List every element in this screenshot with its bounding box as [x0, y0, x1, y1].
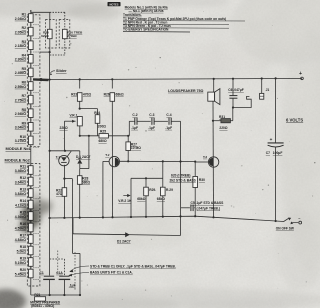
wire C6 to jack contact: [233, 96, 251, 107]
R30 dashed enclosure: [46, 20, 57, 49]
resistor R13 3.84kΩ (divider module 2): [30, 186, 32, 200]
junction rail-R26: [111, 78, 113, 80]
svg-text:MODULE No1: MODULE No1: [6, 146, 32, 151]
svg-text:TO ENERGY SPECIFICATION: TO ENERGY SPECIFICATION: [123, 28, 169, 32]
resistor R30 TREB ONLY 270k: [64, 12, 66, 29]
resistor R17 4.84kΩ (divider module 2): [30, 232, 32, 246]
svg-text:C5 .1μF STD & BASS: C5 .1μF STD & BASS: [191, 201, 225, 205]
wire R23 bottom to node: [79, 101, 81, 108]
svg-text:STD & TREB C1 ONLY. .1μF S: STD & TREB C1 ONLY. .1μF STD & BASL .047…: [90, 265, 176, 269]
wire lower loop: [73, 234, 181, 236]
resistor R16 4.59kΩ (divider module 2): [30, 221, 32, 235]
svg-text:2.18kΩ: 2.18kΩ: [15, 44, 26, 48]
svg-text:62kΩ: 62kΩ: [41, 34, 49, 38]
svg-text:V.R.1: V.R.1: [70, 114, 78, 118]
svg-text:3.84kΩ: 3.84kΩ: [15, 192, 26, 196]
svg-text:5.0kΩ: 5.0kΩ: [17, 249, 27, 253]
junction rail-R23: [79, 78, 81, 80]
svg-text:2k2 STD & BASS: 2k2 STD & BASS: [170, 178, 197, 182]
svg-text:10 MΩ: 10 MΩ: [131, 146, 141, 150]
svg-text:R29.: R29.: [149, 188, 156, 192]
wire R24 bottom: [97, 123, 99, 136]
wire emitter jog: [64, 178, 72, 180]
resistor R29a 68k: [145, 178, 147, 187]
wire chain bottom drop: [30, 281, 32, 296]
potentiometer VR2 1k (volume): [130, 178, 132, 217]
svg-text:22kΩ: 22kΩ: [60, 126, 69, 130]
svg-text:3.64kΩ: 3.64kΩ: [15, 180, 26, 184]
capacitor C7 100uF electrolytic: [275, 78, 277, 142]
svg-text:.1μF: .1μF: [69, 283, 76, 287]
svg-text:3.04kΩ: 3.04kΩ: [15, 126, 26, 130]
loudspeaker symbol: [213, 79, 215, 92]
svg-text:3.46kΩ: 3.46kΩ: [15, 169, 26, 173]
svg-text:3.27kΩ: 3.27kΩ: [15, 139, 26, 143]
svg-text:100μF: 100μF: [273, 151, 283, 155]
svg-text:D1 2AC7: D1 2AC7: [117, 240, 131, 244]
svg-text:Slider: Slider: [56, 69, 67, 73]
svg-text:+: +: [299, 71, 302, 77]
wire D1 anode loop: [80, 168, 89, 170]
svg-text:680Ω: 680Ω: [82, 180, 91, 184]
jack J1: [261, 79, 263, 94]
svg-text:5.19kΩ: 5.19kΩ: [15, 261, 26, 265]
svg-text:4.36kΩ: 4.36kΩ: [15, 215, 26, 219]
wire T1 emitter: [63, 165, 65, 188]
resistor R14 4.11kΩ (divider module 2): [30, 198, 32, 212]
wire top supply rail: [49, 78, 303, 79]
resistor R15 4.36kΩ (divider module 2): [30, 209, 32, 223]
svg-text:220Ω: 220Ω: [219, 126, 228, 130]
resistor R10 3.27kΩ (divider module 1): [30, 132, 32, 148]
svg-text:270kΩ: 270kΩ: [67, 34, 77, 38]
resistor R5 2.49kΩ (divider module 1): [30, 64, 32, 80]
resistor R30 output-stage 620/2k2: [193, 177, 198, 188]
svg-text:2.04kΩ: 2.04kΩ: [15, 17, 26, 21]
wire chain link between modules: [30, 148, 32, 164]
resistor R27 10M: [127, 136, 129, 142]
wire bottom return rail: [50, 216, 284, 221]
svg-text:ON OFF SW: ON OFF SW: [276, 227, 294, 231]
resistor R6 2.59kΩ (divider module 1): [30, 78, 32, 94]
svg-text:(.047μF TREB.): (.047μF TREB.): [197, 206, 220, 210]
resistor R28 680: [79, 169, 81, 176]
resistor R23 470: [79, 79, 81, 88]
svg-text:.1μF: .1μF: [131, 126, 138, 130]
junction rail-speaker: [213, 78, 215, 80]
wire T2 left leg: [103, 160, 109, 162]
resistor R9 3.04kΩ (divider module 1): [30, 119, 32, 135]
svg-text:2.75kΩ: 2.75kΩ: [15, 98, 26, 102]
wire VR1 bottom: [79, 126, 81, 136]
wire speaker through T3 to rail: [212, 101, 215, 217]
svg-text:R.29: R.29: [166, 188, 173, 192]
resistor R11 3.46kΩ (divider module 2): [30, 163, 32, 177]
wire hook to bottom bus: [72, 218, 74, 254]
current arrow D1 2AC7: [124, 234, 130, 236]
svg-text:LOUDSPEAKER 75Ω: LOUDSPEAKER 75Ω: [168, 89, 204, 93]
slider tap blob: [33, 78, 49, 81]
svg-text:T.2: T.2: [105, 153, 109, 157]
svg-text:4.11kΩ: 4.11kΩ: [15, 203, 26, 207]
svg-text:620 (I TREB): 620 (I TREB): [171, 173, 190, 177]
svg-text:C.3: C.3: [149, 113, 154, 117]
svg-text:68kΩ: 68kΩ: [116, 93, 125, 97]
svg-text:V.R.2 1K: V.R.2 1K: [118, 199, 132, 203]
resistor R12 3.64kΩ (divider module 2): [30, 175, 32, 189]
resistor R30 62k (std): [49, 12, 51, 29]
capacitor C5 .1uF: [181, 207, 190, 209]
notes header block: [108, 2, 121, 6]
svg-text:.1μF: .1μF: [165, 126, 172, 130]
resistor R4 2.30kΩ (divider module 1): [30, 51, 32, 67]
R30 treb dashed enclosure: [59, 20, 70, 49]
resistor R18 5.0kΩ (divider module 2): [30, 244, 32, 258]
svg-text:T.3: T.3: [203, 155, 207, 159]
svg-text:2.94kΩ: 2.94kΩ: [15, 112, 26, 116]
junction rail-C7: [275, 77, 277, 79]
svg-text:47Ω: 47Ω: [56, 192, 63, 196]
svg-text:4.59kΩ: 4.59kΩ: [15, 226, 26, 230]
svg-text:NOTES: NOTES: [110, 2, 119, 6]
module No1 dashed enclosure: [27, 15, 40, 147]
wire bias line corner up: [128, 121, 130, 136]
svg-text:680Ω: 680Ω: [99, 139, 108, 143]
svg-text:J1: J1: [266, 88, 270, 92]
svg-text:200Ω: 200Ω: [98, 124, 107, 128]
wire R26 through T2 to rail: [111, 101, 113, 217]
svg-text:C7: C7: [266, 151, 270, 155]
svg-text:4.84kΩ: 4.84kΩ: [15, 238, 26, 242]
svg-text:R23: R23: [71, 93, 77, 97]
svg-text:6 VOLTS: 6 VOLTS: [286, 117, 303, 122]
wire left feed vertical: [49, 52, 51, 275]
wire chain top to R30 branch: [30, 10, 32, 12]
resistor R22 47 (T1 emitter): [62, 188, 67, 197]
svg-text:R21: R21: [34, 293, 40, 297]
svg-text:R25: R25: [100, 130, 106, 134]
wire T3 base: [195, 161, 208, 163]
svg-text:C6 .047μF: C6 .047μF: [228, 88, 244, 92]
svg-text:C.2: C.2: [132, 113, 137, 117]
svg-text:2.49kΩ: 2.49kΩ: [15, 71, 26, 75]
resistor R8 2.94kΩ (divider module 1): [30, 105, 32, 121]
module No2 dashed enclosure: [27, 164, 40, 287]
resistor R1 2.04kΩ (divider module 1): [30, 10, 32, 26]
resistor R20 5.45kΩ (divider module 2): [30, 267, 32, 281]
svg-text:2.30kΩ: 2.30kΩ: [15, 58, 26, 62]
svg-text:(B0841 - 40kΩ): (B0841 - 40kΩ): [31, 304, 54, 308]
wire bias line: [80, 135, 130, 137]
junction rail-J1: [261, 77, 263, 79]
switch ON OFF SW: [284, 218, 289, 221]
svg-text:C1: C1: [40, 271, 44, 275]
svg-text:5.45kΩ: 5.45kΩ: [15, 272, 26, 276]
svg-text:+: +: [270, 137, 273, 142]
svg-text:C.4: C.4: [166, 113, 171, 117]
svg-text:.1μF: .1μF: [148, 126, 155, 130]
svg-text:R30: R30: [199, 178, 205, 182]
wire T2 collector net: [162, 161, 164, 178]
svg-text:68kΩ: 68kΩ: [157, 197, 166, 201]
resistor R7 2.75kΩ (divider module 1): [30, 92, 32, 108]
resistor R19 5.19kΩ (divider module 2): [30, 255, 32, 269]
wire bottom bus: [32, 294, 81, 296]
resistor R29b 68k: [162, 178, 164, 187]
junction rail-C6: [232, 78, 234, 80]
resistor R3 2.18kΩ (divider module 1): [30, 37, 32, 53]
svg-text:MODULE No2: MODULE No2: [5, 158, 31, 163]
wire VR1 wiper to T1 collector: [63, 121, 65, 151]
resistor R2 2.05kΩ (divider module 1): [30, 24, 32, 40]
svg-text:2.05kΩ: 2.05kΩ: [15, 30, 26, 34]
wire R30 bottom jog: [49, 39, 51, 52]
svg-text:R26: R26: [104, 93, 110, 97]
svg-text:470Ω: 470Ω: [83, 93, 92, 97]
svg-text:68kΩ: 68kΩ: [137, 197, 146, 201]
resistor R26 68k: [111, 79, 113, 88]
wire caps feed vertical: [180, 121, 182, 235]
wire T1 collector node line: [50, 150, 80, 152]
svg-text:2.59kΩ: 2.59kΩ: [15, 85, 26, 89]
svg-text:BASS UNITS FIT C1 & C1A.: BASS UNITS FIT C1 & C1A.: [90, 271, 133, 275]
svg-text:C1A: C1A: [56, 271, 63, 275]
wire T2 output line: [120, 160, 196, 162]
